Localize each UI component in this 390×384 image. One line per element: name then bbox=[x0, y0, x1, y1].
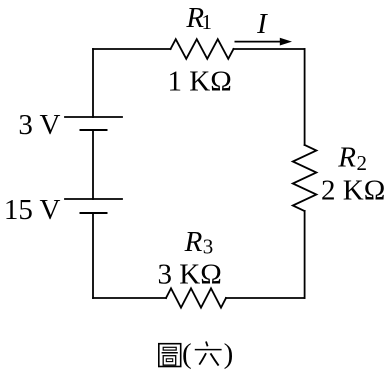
svg-text:R: R bbox=[184, 226, 203, 258]
battery B2 (15 V) long plate bbox=[65, 198, 122, 200]
wire: left vertical middle segment bbox=[92, 130, 94, 199]
wire: top-left horizontal segment bbox=[93, 48, 171, 50]
svg-text:2 KΩ: 2 KΩ bbox=[321, 175, 385, 207]
svg-text:I: I bbox=[256, 8, 268, 40]
svg-text:3 KΩ: 3 KΩ bbox=[158, 258, 222, 290]
current arrow I (head) bbox=[280, 38, 292, 46]
wire: bottom-left horizontal segment bbox=[93, 297, 166, 299]
svg-text:(: ( bbox=[182, 338, 192, 370]
resistor R2 (zigzag, right vertical) bbox=[293, 145, 317, 211]
svg-text:2: 2 bbox=[357, 151, 368, 175]
svg-text:3: 3 bbox=[203, 235, 214, 259]
wire: bottom-right horizontal segment bbox=[226, 297, 305, 299]
caption character LIU (six) drawn bbox=[195, 342, 222, 366]
svg-text:R: R bbox=[337, 142, 356, 174]
wire: left vertical lower segment bbox=[92, 213, 94, 298]
wire: top-right horizontal segment bbox=[234, 48, 305, 50]
svg-text:1 KΩ: 1 KΩ bbox=[168, 66, 232, 98]
svg-text:15 V: 15 V bbox=[4, 194, 61, 226]
wire: right vertical upper segment bbox=[304, 49, 306, 145]
svg-text:3 V: 3 V bbox=[18, 109, 60, 141]
battery B1 (3 V) short plate bbox=[81, 129, 107, 131]
battery B2 (15 V) short plate bbox=[81, 212, 107, 214]
caption character TU (figure) drawn bbox=[159, 344, 181, 367]
current arrow I (line) bbox=[235, 41, 282, 43]
battery B1 (3 V) long plate bbox=[65, 116, 122, 118]
svg-text:): ) bbox=[224, 338, 234, 370]
resistor R3 (zigzag, bottom) bbox=[166, 288, 226, 307]
svg-text:1: 1 bbox=[202, 10, 213, 34]
wire: left vertical top segment bbox=[92, 49, 94, 117]
resistor R1 (zigzag, top) bbox=[171, 39, 234, 59]
wire: right vertical lower segment bbox=[304, 211, 306, 298]
